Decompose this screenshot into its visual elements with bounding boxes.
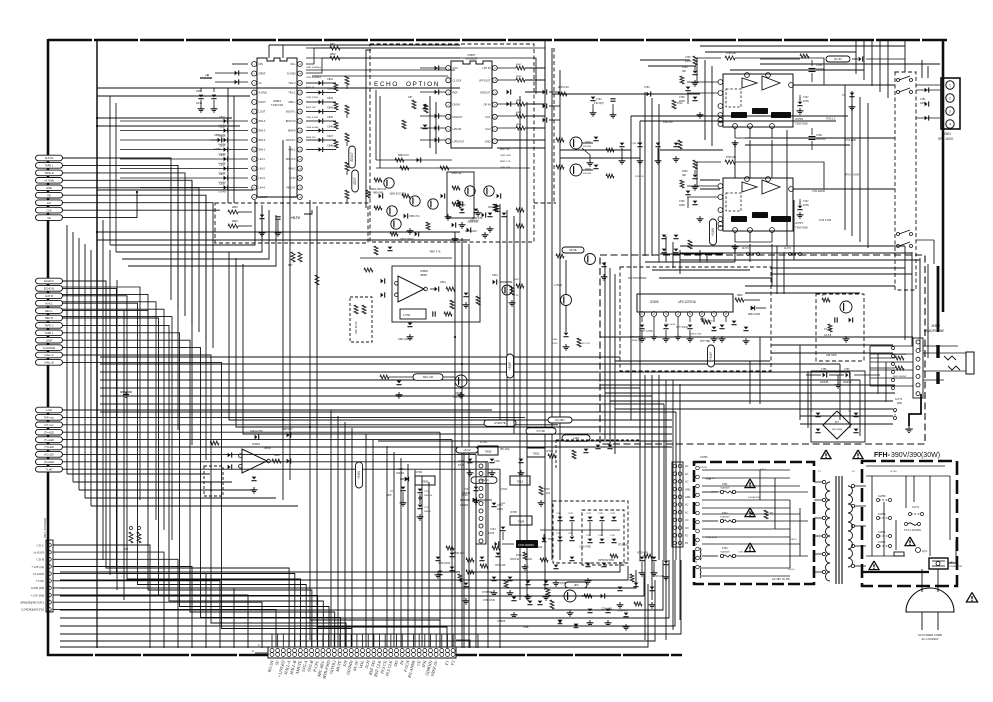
svg-text:GND: GND <box>46 186 52 190</box>
svg-text:A-GND: A-GND <box>33 550 45 554</box>
svg-text:F701: F701 <box>722 483 728 486</box>
svg-text:Q702: Q702 <box>585 168 592 171</box>
svg-text:R/P-mot: R/P-mot <box>44 416 54 420</box>
plug warning triangle <box>966 592 977 602</box>
svg-text:CLP58: CLP58 <box>878 495 886 498</box>
svg-text:FT-D 1.6A/250V: FT-D 1.6A/250V <box>904 529 922 532</box>
D703 diode row <box>460 499 470 501</box>
thin box left of echo area <box>366 50 371 208</box>
extra parts bottom cluster <box>436 557 441 560</box>
echo cluster middle box <box>447 172 474 218</box>
IC801 right pins <box>297 62 302 67</box>
svg-text:IC706: IC706 <box>795 117 803 121</box>
big reservoir cap right of amp1 <box>811 60 813 66</box>
svg-text:7805: 7805 <box>485 450 492 454</box>
CN704 vertical connector mid <box>476 462 486 544</box>
caps row y445 right of center <box>596 445 601 448</box>
svg-text:C833 0.0056(s): C833 0.0056(s) <box>306 77 321 79</box>
svg-text:C702 100P: C702 100P <box>631 143 642 145</box>
right border heavy bars near headphone <box>937 266 940 332</box>
svg-text:C812: C812 <box>440 281 446 284</box>
dashed region extension to x554 <box>534 202 556 204</box>
svg-text:AUX R: AUX R <box>45 294 53 298</box>
transformer lead circles right <box>851 484 854 487</box>
power supply board thick dashed box <box>694 462 814 584</box>
headphone pin strip <box>913 338 923 398</box>
svg-text:(K)-LED: (K)-LED <box>44 453 53 457</box>
pill near PS wires <box>548 417 572 423</box>
svg-text:REC R: REC R <box>45 316 53 320</box>
svg-text:R744: R744 <box>516 555 522 557</box>
svg-text:V.6B: V.6B <box>523 625 529 629</box>
svg-text:AM SPK: AM SPK <box>826 353 837 357</box>
echo block bottom RC row <box>376 159 452 161</box>
amp2 output wire <box>793 188 895 190</box>
more bottom cluster parts <box>588 609 593 612</box>
FFH interior extra verticals <box>905 476 907 508</box>
echo cluster extra caps <box>452 223 455 228</box>
svg-text:C838: C838 <box>219 183 225 186</box>
caps near amp feed <box>674 143 679 146</box>
svg-text:C843 150P: C843 150P <box>500 155 511 157</box>
svg-text:R875: R875 <box>460 205 466 207</box>
amp area extra verticals <box>704 60 706 140</box>
svg-text:IC602: IC602 <box>252 442 260 446</box>
svg-text:390V/390(30W): 390V/390(30W) <box>891 452 940 459</box>
group C verticals turning down <box>439 432 441 648</box>
amp interconnect bus <box>745 137 895 139</box>
IC801 top pin feed verticals <box>268 45 270 58</box>
verticals up to switch <box>921 60 923 78</box>
svg-text:REC MUTE: REC MUTE <box>355 321 358 334</box>
svg-text:R844: R844 <box>516 112 522 114</box>
IC602 surrounding <box>228 453 231 458</box>
svg-text:P=T2K: P=T2K <box>537 429 546 433</box>
svg-text:C837: C837 <box>219 173 225 176</box>
svg-text:POUT: POUT <box>259 100 267 104</box>
svg-text:L-IN: L-IN <box>291 195 296 199</box>
FFH warning triangles <box>869 561 879 570</box>
svg-text:C741 1/50: C741 1/50 <box>601 608 612 610</box>
svg-text:7802: 7802 <box>533 452 540 456</box>
svg-text:F703: F703 <box>722 547 728 550</box>
rev motor dashed box <box>204 466 223 496</box>
IC709 7805 row <box>405 477 409 482</box>
wires from IC801 bottom down-left <box>110 200 255 245</box>
svg-text:D705: D705 <box>398 469 404 471</box>
wires amp1 outputs to spk switch <box>793 84 895 86</box>
rec mute dashed box <box>350 297 372 342</box>
echo transistor cluster <box>384 178 394 188</box>
svg-text:CN706: CN706 <box>700 456 708 459</box>
wire from IC807 to amp area <box>497 139 640 141</box>
top mid extra horizontals <box>306 69 455 71</box>
svg-text:#35.5#: #35.5# <box>788 569 795 571</box>
headphone series resistors <box>895 356 904 360</box>
svg-text:OP2OUT: OP2OUT <box>480 91 491 95</box>
extra right-mid horizontals <box>772 267 905 269</box>
svg-text:R822: R822 <box>232 220 238 223</box>
AM SPK dashed box <box>816 294 864 361</box>
IC801 pin1 wire <box>232 63 248 65</box>
svg-text:2200/35: 2200/35 <box>843 382 852 384</box>
wire row y150-170 mid <box>560 149 631 151</box>
amp section enclosing corners <box>630 116 632 420</box>
svg-text:DIGIN: DIGIN <box>453 103 460 107</box>
left stub at connector <box>255 652 268 654</box>
echo bottom long resistor row <box>376 167 530 169</box>
svg-text:0.47/50: 0.47/50 <box>218 192 226 194</box>
caps to speaker jack <box>916 89 941 91</box>
transistor right of IC802 <box>502 285 512 295</box>
svg-text:TC9174N: TC9174N <box>271 103 283 107</box>
svg-text:47/50: 47/50 <box>803 101 809 103</box>
KB-1 rotated pills right of IC801 <box>349 146 356 168</box>
svg-text:uPC1237HA: uPC1237HA <box>678 300 697 304</box>
IC707 left outside caps <box>687 185 718 187</box>
svg-text:MIC-VR: MIC-VR <box>423 375 433 379</box>
central long verticals <box>282 140 284 480</box>
mid right horizontal bus into fader <box>680 245 905 247</box>
IC706 internal black labels <box>731 112 747 118</box>
svg-text:4: 4 <box>949 123 951 127</box>
svg-text:TDA7266: TDA7266 <box>795 122 808 126</box>
svg-text:22/16: 22/16 <box>552 343 558 345</box>
svg-text:D?: D? <box>835 420 839 424</box>
svg-text:LOUT: LOUT <box>259 110 266 114</box>
y94 supply row <box>552 93 700 95</box>
wire bundle from group A to right fan <box>62 158 171 300</box>
svg-text:T-LMT: T-LMT <box>45 467 53 471</box>
transistor Q705 area <box>565 582 587 588</box>
svg-text:C8?: C8? <box>408 96 413 99</box>
svg-text:C717: C717 <box>424 507 430 509</box>
extra verticals under echo <box>499 204 501 420</box>
verticals near IC801 left box <box>227 88 229 203</box>
svg-text:C835: C835 <box>219 154 225 157</box>
headphone connect wires <box>870 345 913 347</box>
svg-text:A5147: A5147 <box>350 152 354 161</box>
svg-text:R811: R811 <box>330 43 336 46</box>
IC801 top-left caps <box>215 72 248 74</box>
svg-text:TRL-1: TRL-1 <box>288 91 296 95</box>
svg-text:CL771: CL771 <box>742 248 749 250</box>
svg-text:A: A <box>252 649 254 653</box>
svg-text:R712: R712 <box>677 103 683 105</box>
svg-text:R730 103: R730 103 <box>618 545 629 547</box>
svg-text:F702: F702 <box>722 512 728 515</box>
svg-text:C811 220P16: C811 220P16 <box>398 338 413 341</box>
echo low row resistors <box>374 246 378 255</box>
svg-text:A-GND: A-GND <box>259 91 267 95</box>
svg-text:MUTE: MUTE <box>569 248 577 252</box>
echo area left vertical wires <box>375 90 377 160</box>
svg-text:REF: REF <box>453 91 459 95</box>
svg-text:R745: R745 <box>500 503 506 505</box>
svg-text:C836: C836 <box>219 164 225 167</box>
mid bus right verticals into fader area <box>839 364 841 420</box>
svg-text:C831: C831 <box>219 116 225 119</box>
svg-text:7805: 7805 <box>518 520 525 524</box>
svg-text:CL750: CL750 <box>890 471 897 473</box>
svg-text:F/T-mot: F/T-mot <box>45 423 54 427</box>
resistor pair above dashed box <box>291 252 295 262</box>
svg-text:C846: C846 <box>327 126 333 129</box>
wire stubs echo right to amp <box>497 139 545 141</box>
svg-text:CC1: CC1 <box>485 115 491 119</box>
big dashed option box right <box>600 255 925 444</box>
amp lower bus to left <box>645 261 735 263</box>
svg-text:C713 100P: C713 100P <box>844 140 856 142</box>
svg-text:0.01/AC250: 0.01/AC250 <box>748 496 760 499</box>
svg-text:C729: C729 <box>494 461 500 463</box>
svg-text:C805: C805 <box>214 134 220 137</box>
svg-text:AC: AC <box>685 465 689 468</box>
svg-text:50W: 50W <box>897 402 903 405</box>
svg-text:DC-5V: DC-5V <box>834 57 842 61</box>
svg-text:R728 330: R728 330 <box>453 553 464 555</box>
svg-text:GND: GND <box>485 139 491 143</box>
IC707 internal black labels <box>731 216 747 222</box>
mid page cross bus horizontals <box>100 356 620 358</box>
IC805 right small parts <box>735 298 744 302</box>
svg-text:HALL-B: HALL-B <box>44 361 53 365</box>
svg-text:Q705: Q705 <box>560 582 567 585</box>
wires to CN706 from left <box>360 419 672 421</box>
wires from IC801 bottom left nest <box>122 210 269 259</box>
svg-text:C803: C803 <box>196 90 202 93</box>
svg-text:(5V-CD): (5V-CD) <box>500 447 510 451</box>
headphone area small circles column <box>892 347 895 350</box>
svg-text:RIN-4: RIN-4 <box>259 119 266 123</box>
extra group B inner wires <box>62 287 140 500</box>
svg-text:7812: 7812 <box>517 480 524 484</box>
power amp IC707 block <box>723 178 793 231</box>
svg-text:LPOUT: LPOUT <box>259 195 268 199</box>
main left vertical bus wire <box>96 40 98 470</box>
PS fuses with warning triangles <box>702 491 718 493</box>
+5.2V pill and IC703 7805 <box>456 447 478 453</box>
svg-text:T1A/250V: T1A/250V <box>720 487 730 490</box>
headphone extra wires <box>800 415 893 417</box>
svg-text:TAPE C: TAPE C <box>44 324 53 328</box>
DC pill top right row <box>800 54 809 58</box>
upper mid vertical wire pair x536-560 extension <box>535 70 537 94</box>
caps left of IC801 upper <box>97 87 197 89</box>
svg-text:D-GND: D-GND <box>287 72 296 76</box>
svg-text:D802 1N4B: D802 1N4B <box>748 314 760 316</box>
svg-text:C844 1/50: C844 1/50 <box>500 167 511 169</box>
outer border left <box>47 39 50 656</box>
svg-text:T1A/250V: T1A/250V <box>720 551 730 554</box>
AC power plug <box>906 588 954 612</box>
svg-text:C848: C848 <box>327 145 333 148</box>
svg-text:C871: C871 <box>488 207 494 209</box>
IC807 pins <box>446 66 451 71</box>
svg-text:BOUT-L: BOUT-L <box>286 110 296 114</box>
svg-text:R842 4.7K: R842 4.7K <box>500 161 511 163</box>
switch contacts lower <box>897 233 900 236</box>
bias box components <box>228 210 238 214</box>
svg-text:R821: R821 <box>232 206 238 209</box>
vertical pill +5.6F center <box>507 354 514 378</box>
svg-text:R612: R612 <box>274 454 280 457</box>
svg-text:AC: AC <box>685 473 689 476</box>
IC706 internal dashed sub-box <box>726 89 741 107</box>
svg-text:C721: C721 <box>464 489 470 491</box>
svg-text:MIN-2: MIN-2 <box>288 167 296 171</box>
vertical pill mid right <box>710 219 717 245</box>
IC802 feedback box <box>400 309 426 319</box>
svg-text:KB-1 SYSTEM: KB-1 SYSTEM <box>43 518 47 538</box>
svg-text:470:4: 470:4 <box>760 469 766 471</box>
svg-text:R715 2.2: R715 2.2 <box>826 118 836 120</box>
svg-text:4558: 4558 <box>420 273 427 277</box>
svg-text:OE: OE <box>47 193 51 197</box>
transformer secondary coil bumps <box>848 486 853 495</box>
svg-text:ROUT-L: ROUT-L <box>286 138 296 142</box>
svg-text:C738 10/16: C738 10/16 <box>438 563 451 565</box>
IC807 right components <box>497 67 516 69</box>
bias box right cluster caps <box>460 209 465 212</box>
svg-text:RIN-1: RIN-1 <box>259 148 266 152</box>
svg-text:R729 1K: R729 1K <box>510 559 519 561</box>
svg-text:C605 0.47: C605 0.47 <box>282 429 293 431</box>
svg-text:C736 47U/6: C736 47U/6 <box>483 600 496 602</box>
svg-text:SCL: SCL <box>290 62 296 66</box>
svg-text:CT01: CT01 <box>706 479 712 481</box>
left edge vertical bundle near pills <box>66 225 68 474</box>
mic amp transistor cluster <box>413 374 443 381</box>
svg-text:2200/35: 2200/35 <box>816 68 825 71</box>
svg-text:C703: C703 <box>644 87 650 89</box>
middle tall verticals x645-690 <box>644 92 646 256</box>
svg-text:(T)+LED: (T)+LED <box>44 438 54 442</box>
svg-text:7805: 7805 <box>422 480 429 484</box>
svg-text:C751: C751 <box>920 99 926 101</box>
central verticals right cluster <box>454 232 456 648</box>
svg-text:C724: C724 <box>490 529 496 531</box>
verticals right of fader box <box>776 246 778 294</box>
IC805 pins <box>640 312 645 317</box>
svg-text:+5.6V: +5.6V <box>35 579 45 583</box>
svg-text:CLP59: CLP59 <box>878 513 886 516</box>
IC706 top feedback resistor <box>725 56 735 60</box>
CN706 vertical connector at PS box <box>672 462 683 547</box>
bottom center resistor network around x470 <box>466 558 474 562</box>
left connector pills group C <box>36 407 63 413</box>
dashed box bias network <box>215 203 368 243</box>
svg-text:AC-DET: AC-DET <box>555 418 565 422</box>
FFH inner vertical wires <box>871 476 873 556</box>
svg-text:ECHO B: ECHO B <box>44 287 54 291</box>
AM SPK transistor <box>840 301 852 313</box>
wires from switch to right border bus <box>916 84 941 86</box>
IC805 uPC1237HA body <box>637 294 733 312</box>
svg-text:C845: C845 <box>327 116 333 119</box>
IC802 surrounding parts <box>381 279 384 284</box>
svg-text:CO: CO <box>685 527 689 530</box>
right-mid verticals <box>604 262 606 440</box>
svg-text:R704 330: R704 330 <box>663 122 673 124</box>
switch contacts upper <box>897 79 900 82</box>
nested corner wires above bottom connector <box>310 620 440 648</box>
amp right vertical bus <box>844 85 846 230</box>
svg-text:CONNECTOR: CONNECTOR <box>948 566 962 568</box>
wire bundle group B staircase to lower area <box>62 281 289 648</box>
svg-text:R824 1K: R824 1K <box>306 87 315 89</box>
top right horizontals <box>700 45 905 47</box>
left connector pills group B <box>36 278 63 284</box>
svg-text:R? 4.7K: R? 4.7K <box>582 343 590 345</box>
svg-text:CC2: CC2 <box>485 127 491 131</box>
svg-text:C714: C714 <box>424 491 430 493</box>
svg-text:BOUT-R: BOUT-R <box>286 119 296 123</box>
svg-text:+5.2V: +5.2V <box>463 448 471 452</box>
svg-text:T1A/250V: T1A/250V <box>720 516 730 519</box>
diagonal pill labels mid page <box>484 420 516 427</box>
svg-text:C813: C813 <box>492 274 498 277</box>
svg-text:MOUT-2: MOUT-2 <box>286 157 296 161</box>
amp1 left extra feed wires <box>700 179 720 181</box>
svg-text:(T)-LED: (T)-LED <box>44 445 53 449</box>
svg-text:M65850P: M65850P <box>466 57 478 61</box>
svg-text:C701 0.01: C701 0.01 <box>738 552 749 554</box>
transformer primary coil bumps <box>826 482 831 491</box>
caps above IC602 <box>255 435 258 440</box>
transformer lead circles left <box>822 480 825 483</box>
svg-text:TRL-2: TRL-2 <box>288 81 296 85</box>
svg-text:D-GND: D-GND <box>32 572 44 576</box>
svg-text:RIN-3: RIN-3 <box>259 129 266 133</box>
svg-text:10/16: 10/16 <box>196 102 203 105</box>
svg-text:5.0V(M)(MUTE): 5.0V(M)(MUTE) <box>21 608 45 612</box>
svg-text:SPE JACK: SPE JACK <box>938 137 954 141</box>
upper-left box wires around empty area <box>229 252 480 420</box>
svg-text:R856 330: R856 330 <box>468 222 479 224</box>
svg-text:C706: C706 <box>679 201 685 203</box>
extend fan verticals to staircase <box>177 165 179 430</box>
svg-text:V=5M5: V=5M5 <box>497 619 506 623</box>
CN701 bottom connector <box>268 647 456 658</box>
vertical pill echo right <box>708 345 715 367</box>
svg-text:47U/6: 47U/6 <box>488 533 495 535</box>
svg-text:CL772: CL772 <box>895 398 903 401</box>
svg-text:C709: C709 <box>816 134 822 137</box>
IC807 right wires to bus <box>525 67 545 69</box>
svg-text:CO: CO <box>685 519 689 522</box>
svg-text:C704: C704 <box>497 505 503 507</box>
wires from x97 to IC801 pins upper <box>97 117 232 119</box>
svg-text:C747 100/10: C747 100/10 <box>529 547 543 549</box>
svg-text:CLP51: CLP51 <box>878 531 886 534</box>
IC801 right resistor column x345 <box>345 76 349 85</box>
svg-text:+5.6V: +5.6V <box>711 227 715 236</box>
svg-text:R854 56K: R854 56K <box>373 193 384 195</box>
svg-text:47U/6: 47U/6 <box>458 465 465 467</box>
FFH interior top extra <box>866 465 945 467</box>
IC801 left pins <box>252 62 257 67</box>
svg-text:+5.7V: +5.7V <box>291 216 301 220</box>
svg-text:PBOUT: PBOUT <box>287 186 296 190</box>
svg-text:R812: R812 <box>330 53 336 56</box>
svg-text:AC 48V: AC 48V <box>782 578 790 581</box>
svg-text:C702: C702 <box>596 99 602 101</box>
+12V(A) pill and IC704 7812 <box>471 477 497 484</box>
svg-text:1: 1 <box>949 84 951 88</box>
svg-text:+5.6F: +5.6F <box>508 362 512 370</box>
transformer warning triangles <box>821 450 831 459</box>
